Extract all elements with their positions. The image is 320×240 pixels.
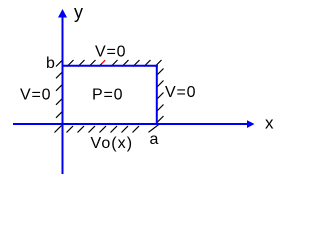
svg-text:V=0: V=0 [95, 44, 126, 61]
svg-text:Vo(x): Vo(x) [91, 135, 134, 152]
hatching left edge [56, 72, 62, 118]
hatching bottom edge [55, 124, 160, 132]
red hatch segment on top edge [102, 60, 105, 63]
svg-text:y: y [74, 2, 83, 22]
svg-text:V=0: V=0 [20, 87, 51, 104]
svg-text:a: a [150, 131, 159, 148]
svg-text:b: b [46, 55, 55, 72]
svg-text:x: x [265, 113, 274, 132]
y-axis shaft [62, 15, 64, 174]
hatching top edge [56, 60, 162, 67]
svg-text:P=0: P=0 [92, 87, 123, 104]
rectangle right edge [156, 65, 158, 125]
hatching right edge [157, 69, 164, 123]
x-axis shaft [13, 123, 249, 125]
svg-text:V=0: V=0 [165, 84, 196, 101]
x-axis arrowhead [247, 120, 255, 128]
y-axis arrowhead [58, 9, 67, 18]
rectangle top edge [62, 65, 158, 67]
